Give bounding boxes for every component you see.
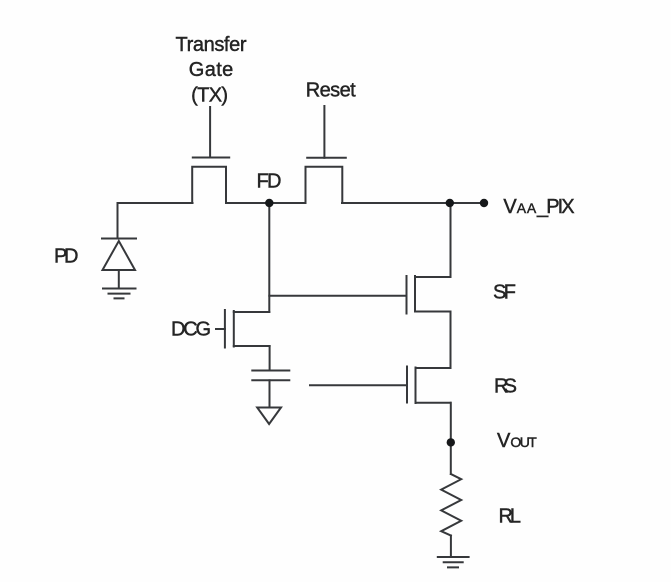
transistor Reset channel hump bbox=[306, 167, 343, 203]
wire: FD to SF gate bbox=[269, 295, 406, 297]
node VAA_PIX junction dot bbox=[446, 199, 454, 207]
transistor SF channel bbox=[414, 276, 416, 312]
transistor DCG source bbox=[234, 345, 270, 347]
svg-text:Reset: Reset bbox=[306, 79, 356, 101]
wire: junction to VAA_PIX terminal bbox=[451, 202, 485, 204]
wire: capacitor to analog ground bbox=[269, 380, 271, 407]
ground (PD) bbox=[103, 289, 136, 299]
wire: DCG source to capacitor bbox=[269, 346, 271, 371]
wire: DCG drain to FD vertical bbox=[234, 311, 269, 313]
wire: Reset drain to VAA_PIX junction bbox=[342, 202, 451, 204]
svg-text:SF: SF bbox=[493, 282, 516, 304]
capacitor C top plate bbox=[252, 370, 289, 372]
transistor RS source bbox=[416, 402, 451, 404]
photodiode PD cathode bar bbox=[102, 238, 136, 240]
node VOUT dot bbox=[447, 438, 455, 446]
transistor Reset gate bar bbox=[307, 157, 346, 159]
wire: PD cathode to TX source bbox=[118, 202, 193, 204]
transistor DCG channel bbox=[233, 311, 235, 347]
transistor TX (transfer gate) channel hump bbox=[192, 167, 226, 203]
transistor SF source bbox=[415, 311, 451, 313]
svg-text:DCG: DCG bbox=[171, 319, 211, 341]
svg-text:RS: RS bbox=[494, 376, 517, 398]
wire: RS source to resistor RL bbox=[450, 403, 452, 474]
svg-text:PD: PD bbox=[54, 245, 79, 267]
transistor SF gate bar bbox=[406, 276, 408, 314]
wire: PD anode to ground bbox=[118, 270, 120, 289]
capacitor C bottom plate bbox=[252, 379, 289, 381]
svg-text:Transfer: Transfer bbox=[176, 34, 247, 56]
transistor DCG gate bar bbox=[224, 310, 226, 348]
svg-text:VAA_PIX: VAA_PIX bbox=[503, 196, 574, 218]
svg-text:FD: FD bbox=[257, 171, 282, 193]
wire: Reset gate lead bbox=[323, 106, 325, 158]
wire: SF source to RS drain bbox=[450, 312, 452, 369]
wire: RS gate lead bbox=[310, 384, 407, 386]
photodiode PD lead bbox=[117, 203, 119, 239]
svg-text:Gate: Gate bbox=[189, 59, 234, 81]
wire: resistor to ground bbox=[450, 536, 452, 558]
svg-text:RL: RL bbox=[499, 506, 522, 528]
transistor RS channel bbox=[415, 368, 417, 404]
ground (analog, open triangle) bbox=[257, 408, 281, 425]
svg-text:(TX): (TX) bbox=[191, 85, 228, 107]
photodiode PD triangle bbox=[103, 241, 136, 270]
wire: TX drain to FD node bbox=[226, 202, 306, 204]
wire: TX gate lead bbox=[209, 107, 211, 158]
node VAA_PIX terminal dot bbox=[480, 199, 488, 207]
svg-text:VOUT: VOUT bbox=[497, 430, 537, 452]
wire: DCG gate lead bbox=[216, 328, 225, 330]
transistor TX gate bar bbox=[193, 157, 229, 159]
wire: FD node vertical bbox=[268, 203, 270, 312]
transistor RS drain bbox=[416, 367, 451, 369]
node FD junction dot bbox=[265, 199, 273, 207]
resistor RL zigzag bbox=[441, 474, 461, 536]
transistor RS gate bar bbox=[406, 367, 408, 403]
ground (bottom) bbox=[438, 557, 469, 567]
wire: VAA_PIX junction down to SF drain bbox=[450, 203, 452, 277]
transistor SF drain bbox=[415, 276, 451, 278]
